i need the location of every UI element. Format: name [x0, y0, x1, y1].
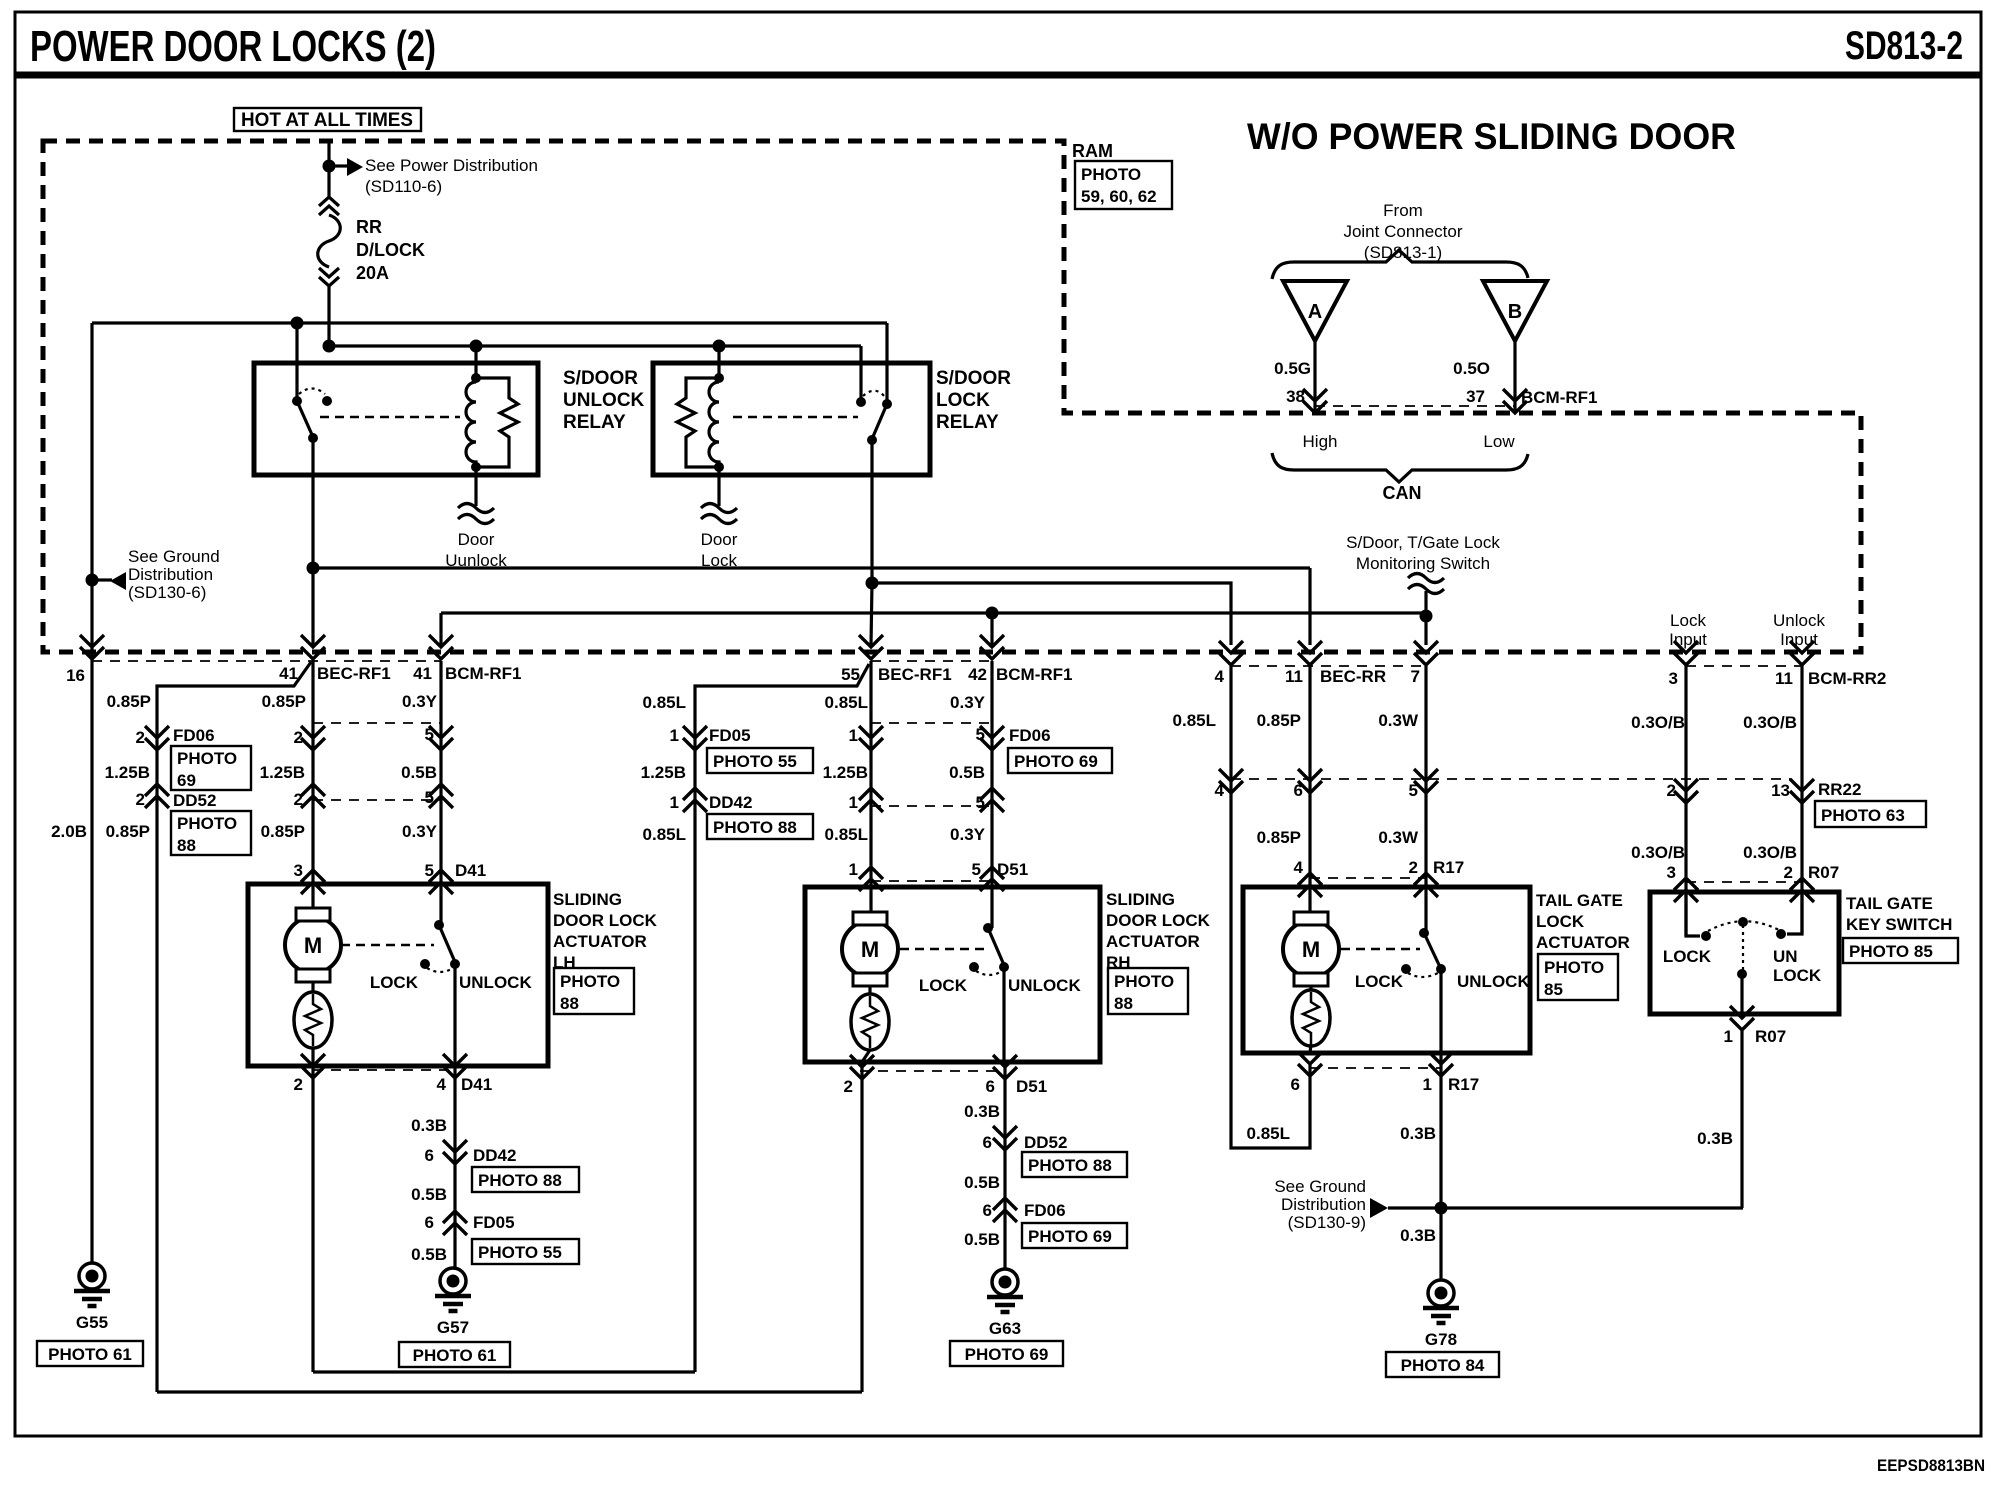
svg-text:G63: G63	[989, 1319, 1021, 1338]
svg-text:1.25B: 1.25B	[260, 763, 305, 782]
svg-text:0.3O/B: 0.3O/B	[1631, 713, 1685, 732]
connector FD05 pin 1 chevron x695	[683, 726, 707, 750]
svg-text:0.3W: 0.3W	[1378, 828, 1419, 847]
tail gate actuator switch	[1419, 928, 1429, 938]
svg-text:R07: R07	[1755, 1027, 1786, 1046]
svg-text:41: 41	[279, 664, 298, 683]
svg-text:W/O POWER SLIDING DOOR: W/O POWER SLIDING DOOR	[1247, 116, 1736, 157]
svg-text:FD06: FD06	[173, 726, 215, 745]
wire 0.3O/B lock input to key switch	[1684, 666, 1687, 936]
bus connector chevron at x=313	[301, 635, 325, 659]
HOT AT ALL TIMES label box	[234, 108, 421, 131]
svg-text:2: 2	[294, 1075, 303, 1094]
svg-text:Input: Input	[1780, 630, 1818, 649]
svg-text:D51: D51	[1016, 1077, 1047, 1096]
svg-text:88: 88	[1114, 994, 1133, 1013]
svg-text:6: 6	[1294, 781, 1303, 800]
wire feed line 1	[92, 321, 887, 324]
svg-text:0.5B: 0.5B	[401, 763, 437, 782]
wire 0.5G from terminal A to BCM-RF1 pin 38	[1313, 341, 1316, 413]
svg-text:2: 2	[844, 1077, 853, 1096]
svg-text:6: 6	[425, 1146, 434, 1165]
tail gate actuator motor M	[1308, 887, 1311, 914]
connector DD52 pin 2 chevron x313	[301, 784, 325, 808]
svg-text:0.3O/B: 0.3O/B	[1743, 843, 1797, 862]
svg-text:SD813-2: SD813-2	[1845, 24, 1963, 68]
wire actuator RH unlock contact to pin 6 D51	[1004, 967, 1005, 1268]
svg-text:PHOTO: PHOTO	[1544, 958, 1604, 977]
wire line2 drop to lock relay coil	[717, 346, 720, 378]
connector D51 pin 5 chevron	[980, 867, 1004, 891]
svg-text:1: 1	[849, 793, 858, 812]
svg-text:ACTUATOR: ACTUATOR	[1106, 932, 1200, 951]
svg-text:PHOTO 63: PHOTO 63	[1821, 806, 1905, 825]
svg-text:0.85P: 0.85P	[106, 822, 150, 841]
wire line C BCM-RF1 41 to monitoring switch	[441, 611, 1426, 614]
svg-text:0.3Y: 0.3Y	[402, 822, 438, 841]
svg-text:EEPSD8813BN: EEPSD8813BN	[1877, 1456, 1985, 1475]
relay S/DOOR LOCK RELAY box	[653, 363, 930, 475]
FD06 PHOTO 69 box center	[1008, 748, 1112, 773]
node ground bus G78	[1435, 1202, 1448, 1215]
svg-text:PHOTO: PHOTO	[177, 814, 237, 833]
wire lock relay coil to Door Lock	[717, 467, 720, 506]
wire to ground G78	[1439, 1208, 1442, 1280]
junction node on power feed	[323, 160, 336, 173]
svg-text:FD05: FD05	[709, 726, 751, 745]
svg-text:PHOTO 88: PHOTO 88	[478, 1171, 562, 1190]
svg-text:5: 5	[425, 725, 434, 744]
svg-text:DD52: DD52	[1024, 1133, 1067, 1152]
svg-text:LOCK: LOCK	[370, 973, 419, 992]
pin 4 D41 chevron below actuator LH	[443, 1054, 467, 1078]
svg-text:R07: R07	[1808, 863, 1839, 882]
connector D51 pin 1 chevron	[859, 867, 883, 891]
connector row dashed BEC-RR second	[1231, 778, 1791, 780]
actuator LH switch	[434, 920, 444, 930]
actuator RH resistor	[868, 985, 871, 994]
svg-text:(SD110-6): (SD110-6)	[365, 177, 442, 196]
wire tail actuator unlock contact to pin 1 R17	[1439, 969, 1442, 1208]
svg-text:1.25B: 1.25B	[105, 763, 150, 782]
connector DD52 pin 2 chevron x157	[145, 784, 169, 808]
svg-text:0.3W: 0.3W	[1378, 711, 1419, 730]
svg-text:6: 6	[425, 1213, 434, 1232]
svg-text:FD05: FD05	[473, 1213, 515, 1232]
DD52 PHOTO 88 box	[171, 811, 251, 855]
connector DD42 pin 1 chevron x695	[683, 788, 707, 812]
svg-text:FD06: FD06	[1009, 726, 1051, 745]
svg-text:69: 69	[177, 771, 196, 790]
svg-text:PHOTO 55: PHOTO 55	[713, 752, 797, 771]
connector FD06 pin 2 chevron x313	[301, 726, 325, 750]
svg-text:Low: Low	[1483, 432, 1515, 451]
svg-text:1: 1	[1724, 1027, 1733, 1046]
svg-text:PHOTO: PHOTO	[1081, 165, 1141, 184]
wire 0.85L BEC-RR 4 to tail gate actuator return	[1231, 666, 1310, 1148]
joint connector terminal B	[1483, 281, 1547, 341]
pin 6 chevron x1310	[1298, 769, 1322, 793]
RAM PHOTO 59 60 62 box	[1075, 161, 1172, 209]
svg-text:20A: 20A	[356, 263, 389, 283]
svg-text:LOCK: LOCK	[1663, 947, 1712, 966]
connector R17 pin 4 chevron	[1298, 873, 1322, 897]
svg-text:PHOTO 69: PHOTO 69	[1028, 1227, 1112, 1246]
connector FD06 row dashed	[313, 722, 441, 724]
svg-text:1: 1	[849, 860, 858, 879]
svg-text:BEC-RF1: BEC-RF1	[317, 664, 391, 683]
bus connector chevron at x=871	[859, 635, 883, 659]
svg-text:5: 5	[976, 725, 985, 744]
CAN brace	[1272, 453, 1528, 482]
node line1 to unlock relay switch	[291, 317, 304, 330]
svg-text:R17: R17	[1448, 1075, 1479, 1094]
svg-text:Distribution: Distribution	[128, 565, 213, 584]
wire fuse to relay feed line	[327, 286, 330, 346]
wire actuator RH motor return	[860, 1062, 863, 1392]
svg-text:6: 6	[983, 1201, 992, 1220]
svg-text:Monitoring Switch: Monitoring Switch	[1356, 554, 1490, 573]
wire line C drop to pin 41 BCM-RF1	[439, 613, 442, 645]
unlock relay actuation dashed link	[320, 416, 460, 419]
svg-text:0.5G: 0.5G	[1274, 359, 1311, 378]
tail gate actuator resistor	[1309, 985, 1312, 992]
wire 0.5O from terminal B to BCM-RF1 pin 37	[1513, 341, 1516, 413]
svg-text:0.85L: 0.85L	[643, 693, 686, 712]
connector row thin dashed line center	[871, 660, 992, 662]
connector R17 bottom row dashed	[1310, 1067, 1441, 1069]
coil ground symbol Door Lock	[701, 504, 737, 524]
see ground distribution arrow right	[1370, 1198, 1388, 1218]
node fuse-line2 junction	[323, 340, 336, 353]
FD06 PHOTO 69 box	[171, 746, 251, 790]
wire line1 drop to lock relay switch contact	[885, 323, 888, 404]
wire return loop FD06 to actuator RH pin2	[157, 1390, 862, 1393]
svg-text:A: A	[1308, 301, 1322, 323]
node line2 to lock relay coil	[713, 340, 726, 353]
pin 6 chevron below tail actuator	[1298, 1052, 1322, 1076]
svg-text:5: 5	[976, 793, 985, 812]
svg-text:0.85L: 0.85L	[1247, 1124, 1290, 1143]
connector row thin dashed line BCM-RR2	[1686, 665, 1802, 667]
svg-text:2: 2	[1784, 863, 1793, 882]
actuator RH PHOTO 88 box	[1108, 968, 1188, 1014]
pin 6 D51 chevron below actuator RH	[993, 1055, 1017, 1079]
wire lock output to bus pin 55	[871, 583, 872, 645]
svg-text:From: From	[1383, 201, 1423, 220]
connector DD42 pin 6 chevron	[443, 1140, 467, 1164]
svg-text:S/DOOR: S/DOOR	[936, 368, 1011, 389]
pin 2 chevron below actuator RH	[850, 1055, 874, 1079]
wire line2 drop to unlock relay coil	[474, 346, 477, 378]
svg-text:Input: Input	[1669, 630, 1707, 649]
svg-text:6: 6	[1291, 1075, 1300, 1094]
svg-text:HOT AT ALL TIMES: HOT AT ALL TIMES	[241, 110, 413, 131]
svg-text:85: 85	[1544, 980, 1563, 999]
FD05 PHOTO 55 box center	[707, 748, 813, 773]
svg-text:0.3Y: 0.3Y	[950, 825, 986, 844]
pin 5 chevron x1426	[1414, 769, 1438, 793]
svg-text:DOOR LOCK: DOOR LOCK	[1106, 911, 1211, 930]
relay S/DOOR UNLOCK RELAY box	[254, 363, 538, 475]
node line2 to unlock relay coil	[470, 340, 483, 353]
wire monitoring switch to junction	[1424, 591, 1427, 645]
svg-text:1.25B: 1.25B	[823, 763, 868, 782]
svg-text:0.3B: 0.3B	[964, 1102, 1000, 1121]
svg-text:3: 3	[1667, 863, 1676, 882]
svg-text:0.85P: 0.85P	[1257, 828, 1301, 847]
connector DD52 pin 5 chevron x992	[980, 788, 1004, 812]
connector D41 bottom row dashed	[313, 1069, 455, 1071]
svg-text:55: 55	[841, 665, 860, 684]
svg-text:4: 4	[1294, 858, 1304, 877]
connector RR22 pin 2 chevron	[1674, 779, 1698, 803]
connector DD52 row dashed	[313, 799, 441, 801]
svg-text:Unlock: Unlock	[1773, 611, 1825, 630]
svg-text:0.3O/B: 0.3O/B	[1631, 843, 1685, 862]
svg-text:2: 2	[294, 728, 303, 747]
unlock relay resistor	[476, 378, 518, 467]
ground bus wire to tail gate key switch	[1388, 1206, 1743, 1209]
svg-text:UNLOCK: UNLOCK	[459, 973, 532, 992]
bus connector chevron at x=1310	[1298, 641, 1322, 665]
ground G57	[435, 1268, 471, 1311]
svg-text:DD42: DD42	[709, 793, 752, 812]
svg-text:RELAY: RELAY	[563, 412, 626, 433]
bus connector chevron at x=1686	[1674, 641, 1698, 665]
bus connector chevron at x=1426	[1414, 641, 1438, 665]
svg-text:TAIL GATE: TAIL GATE	[1846, 894, 1933, 913]
svg-text:PHOTO 61: PHOTO 61	[48, 1345, 132, 1364]
connector FD06 pin 5 chevron x992	[980, 726, 1004, 750]
svg-text:16: 16	[66, 666, 85, 685]
svg-text:3: 3	[294, 861, 303, 880]
svg-text:LOCK: LOCK	[1536, 912, 1585, 931]
svg-text:0.85P: 0.85P	[261, 822, 305, 841]
svg-text:(SD130-6): (SD130-6)	[128, 583, 206, 602]
svg-text:LOCK: LOCK	[1355, 972, 1404, 991]
svg-text:0.5B: 0.5B	[949, 763, 985, 782]
svg-text:BEC-RF1: BEC-RF1	[878, 665, 952, 684]
svg-text:1: 1	[1423, 1075, 1432, 1094]
svg-text:1: 1	[670, 793, 679, 812]
bus connector chevron at x=1231	[1219, 641, 1243, 665]
wire line1 corner down to pin 16	[90, 323, 93, 661]
actuator LH resistor	[311, 981, 314, 992]
FD06 PHOTO 69 box bottom	[1022, 1223, 1127, 1248]
svg-text:5: 5	[972, 860, 981, 879]
svg-text:TAIL GATE: TAIL GATE	[1536, 891, 1623, 910]
bus connector chevron at x=441	[429, 635, 453, 659]
svg-text:6: 6	[983, 1133, 992, 1152]
svg-text:2.0B: 2.0B	[51, 822, 87, 841]
joint connector brace	[1272, 250, 1528, 279]
key switch PHOTO 85 box	[1843, 938, 1958, 963]
svg-text:D41: D41	[461, 1075, 492, 1094]
svg-text:0.5B: 0.5B	[411, 1245, 447, 1264]
svg-text:BCM-RF1: BCM-RF1	[445, 664, 522, 683]
svg-text:ACTUATOR: ACTUATOR	[553, 932, 647, 951]
svg-text:BCM-RF1: BCM-RF1	[996, 665, 1073, 684]
svg-text:PHOTO: PHOTO	[1114, 972, 1174, 991]
lock relay resistor	[677, 378, 719, 467]
svg-text:D51: D51	[997, 860, 1028, 879]
actuator SLIDING DOOR LOCK ACTUATOR RH box	[805, 887, 1100, 1062]
svg-text:S/Door, T/Gate Lock: S/Door, T/Gate Lock	[1346, 533, 1500, 552]
svg-text:BCM-RR2: BCM-RR2	[1808, 669, 1886, 688]
wire 0.85L BEC-RF1 55 branch	[695, 664, 869, 1372]
lock relay actuation dashed link	[733, 416, 858, 419]
svg-text:88: 88	[177, 836, 196, 855]
wire 0.85P BEC-RF1 41 to actuator LH	[311, 661, 314, 884]
svg-text:0.3B: 0.3B	[1400, 1226, 1436, 1245]
tail gate actuator PHOTO 85 box	[1538, 954, 1618, 1000]
svg-text:PHOTO 69: PHOTO 69	[1014, 752, 1098, 771]
bus connector chevron at x=992	[980, 635, 1004, 659]
svg-text:7: 7	[1411, 667, 1420, 686]
wire line A drop to pin 11 BEC-RR	[1308, 568, 1311, 645]
wire unlock relay coil to Door Uunlock	[474, 467, 477, 506]
svg-text:13: 13	[1771, 781, 1790, 800]
svg-text:88: 88	[560, 994, 579, 1013]
svg-text:S/DOOR: S/DOOR	[563, 368, 638, 389]
svg-text:BCM-RF1: BCM-RF1	[1521, 388, 1598, 407]
pin 1 R07 chevron below key switch	[1730, 1006, 1754, 1030]
connector D51 row dashed	[871, 880, 992, 882]
node unlock output to lock-input line A	[307, 562, 320, 575]
svg-text:0.3Y: 0.3Y	[950, 693, 986, 712]
see ground distribution arrow	[97, 578, 112, 581]
connector DD42 row dashed center	[871, 805, 992, 807]
svg-text:(SD130-9): (SD130-9)	[1288, 1213, 1366, 1232]
svg-text:0.5B: 0.5B	[411, 1185, 447, 1204]
coil ground symbol Door Uunlock	[458, 504, 494, 524]
connector R07 pin 3 chevron	[1674, 878, 1698, 902]
svg-text:0.3B: 0.3B	[1697, 1129, 1733, 1148]
svg-text:Joint Connector: Joint Connector	[1343, 222, 1462, 241]
svg-text:PHOTO 55: PHOTO 55	[478, 1243, 562, 1262]
svg-text:5: 5	[1409, 781, 1418, 800]
svg-text:UNLOCK: UNLOCK	[563, 390, 645, 411]
wire 0.3W BEC-RR 7 to tail gate actuator switch	[1424, 666, 1427, 933]
wire feed line 2	[329, 344, 861, 347]
svg-text:4: 4	[1215, 667, 1225, 686]
svg-text:PHOTO 88: PHOTO 88	[1028, 1156, 1112, 1175]
actuator TAIL GATE LOCK ACTUATOR box	[1243, 887, 1530, 1053]
svg-text:KEY SWITCH: KEY SWITCH	[1846, 915, 1952, 934]
connector DD52 pin 6 chevron bottom	[993, 1126, 1017, 1150]
wire key switch common to pin 1 R07	[1740, 974, 1743, 1014]
wire line C drop to pin 42 BCM-RF1	[990, 613, 993, 645]
svg-text:4: 4	[437, 1075, 447, 1094]
wire line B to pin 4 BEC-RR	[872, 583, 1231, 645]
svg-text:2: 2	[136, 790, 145, 809]
node lock output to line B	[866, 577, 879, 590]
fuse RR D/LOCK 20A	[319, 197, 339, 215]
svg-text:G55: G55	[76, 1313, 108, 1332]
svg-text:RR22: RR22	[1818, 780, 1861, 799]
svg-text:0.5B: 0.5B	[964, 1173, 1000, 1192]
svg-text:1: 1	[670, 726, 679, 745]
svg-text:0.85P: 0.85P	[262, 692, 306, 711]
svg-text:UNLOCK: UNLOCK	[1457, 972, 1530, 991]
unlock relay switch	[292, 396, 302, 406]
wire actuator LH unlock contact to pin 4 D41	[453, 964, 456, 1268]
wire 0.3Y BCM-RF1 41 to actuator LH switch	[439, 661, 442, 925]
wire 2.0B pin 16 to ground G55	[90, 661, 93, 1263]
bus connector chevron at x=1802	[1790, 641, 1814, 665]
svg-text:SLIDING: SLIDING	[1106, 890, 1175, 909]
connector FD05 pin 1 chevron x871	[859, 726, 883, 750]
ground G55	[74, 1263, 110, 1306]
svg-text:2: 2	[294, 790, 303, 809]
svg-text:0.3Y: 0.3Y	[402, 692, 438, 711]
FD05 PHOTO 55 box	[472, 1239, 579, 1264]
ground G78	[1423, 1280, 1459, 1323]
svg-text:Door: Door	[458, 530, 495, 549]
connector FD06 pin 2 chevron x157	[145, 726, 169, 750]
svg-text:DOOR LOCK: DOOR LOCK	[553, 911, 658, 930]
svg-text:SLIDING: SLIDING	[553, 890, 622, 909]
svg-text:2: 2	[136, 728, 145, 747]
svg-text:5: 5	[425, 861, 434, 880]
pin 1 R17 chevron below tail actuator	[1429, 1052, 1453, 1076]
node line C monitoring switch junction	[1420, 610, 1433, 623]
svg-text:11: 11	[1775, 669, 1793, 688]
svg-text:DD42: DD42	[473, 1146, 516, 1165]
svg-text:G78: G78	[1425, 1330, 1457, 1349]
svg-text:0.85L: 0.85L	[643, 825, 686, 844]
svg-text:PHOTO: PHOTO	[177, 749, 237, 768]
connector DD42 pin 1 chevron x871	[859, 788, 883, 812]
connector D41 pin 5 chevron	[429, 870, 453, 894]
connector D41 row dashed	[313, 883, 443, 885]
svg-text:R17: R17	[1433, 858, 1464, 877]
wire line1 drop to unlock relay switch contact	[295, 323, 298, 401]
svg-text:3: 3	[1669, 669, 1678, 688]
connector R07 pin 2 chevron	[1790, 878, 1814, 902]
wire return loop actuator LH pin2 to DD42	[313, 1370, 695, 1373]
svg-text:Lock: Lock	[1670, 611, 1706, 630]
connector D41 pin 3 chevron	[301, 870, 325, 894]
svg-text:0.5O: 0.5O	[1453, 359, 1490, 378]
connector DD52 pin 5 chevron x441	[429, 784, 453, 808]
RR22 PHOTO 63 box	[1815, 801, 1926, 827]
wire lock relay switch output to pin 55 BEC-RF1	[870, 440, 873, 583]
svg-text:11: 11	[1285, 667, 1303, 686]
connector R17 row dashed	[1310, 877, 1426, 879]
svg-text:D41: D41	[455, 861, 486, 880]
svg-text:Door: Door	[701, 530, 738, 549]
connector FD05 pin 6 chevron	[443, 1211, 467, 1235]
svg-text:See Power Distribution: See Power Distribution	[365, 156, 538, 175]
svg-text:42: 42	[968, 665, 987, 684]
svg-text:UN: UN	[1773, 947, 1798, 966]
svg-text:0.3O/B: 0.3O/B	[1743, 713, 1797, 732]
monitoring switch break symbol	[1408, 574, 1444, 594]
actuator RH motor M	[869, 887, 872, 912]
svg-text:RELAY: RELAY	[936, 412, 999, 433]
thick dashed harness boundary box	[43, 141, 1861, 652]
svg-text:UNLOCK: UNLOCK	[1008, 976, 1081, 995]
arrow to See Power Distribution	[334, 164, 347, 167]
svg-text:1.25B: 1.25B	[641, 763, 686, 782]
wire line2 drop to lock relay switch left contact	[859, 346, 862, 402]
wire 0.85P BEC-RF1 41 branch to FD06	[157, 662, 311, 1392]
wire 0.3O/B unlock input to key switch	[1800, 666, 1803, 934]
svg-text:FD06: FD06	[1024, 1201, 1066, 1220]
svg-text:BEC-RR: BEC-RR	[1320, 667, 1386, 686]
